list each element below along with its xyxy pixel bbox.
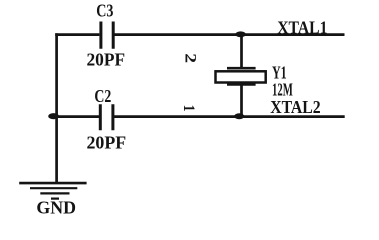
- svg-text:C2: C2: [94, 86, 111, 106]
- svg-text:XTAL1: XTAL1: [277, 18, 327, 38]
- svg-text:20PF: 20PF: [87, 50, 126, 70]
- svg-text:1: 1: [180, 105, 197, 112]
- svg-text:2: 2: [182, 53, 199, 63]
- svg-text:XTAL2: XTAL2: [270, 97, 321, 117]
- svg-text:C3: C3: [96, 1, 113, 21]
- svg-text:GND: GND: [36, 197, 76, 217]
- svg-text:20PF: 20PF: [87, 132, 127, 152]
